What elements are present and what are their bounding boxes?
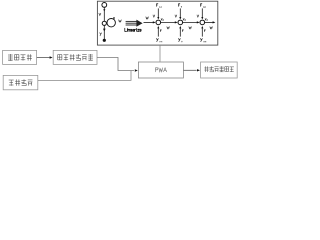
top label F_t+1 [201,4,203,7]
wire F_t-1 into node [157,8,159,18]
label 目标音频信号 [58,55,62,60]
node F (top circle of left chain) [102,3,107,8]
node label x_t-1 [161,18,163,20]
wire figure box to PWA [159,45,161,61]
bottom label y_t-1 [156,38,158,42]
wire y_t-1 into node (from below) [157,27,159,36]
wire node1 to node2 [161,21,177,23]
node label x_t [183,18,185,20]
wire F_t+1 into node [201,8,203,18]
label W (right of loop) [119,20,122,22]
label V at node 2 [175,15,177,17]
label W between node2 node3 [189,26,192,28]
wire node3 out [205,21,215,23]
bottom label y_t [178,38,180,42]
label V at node 3 [197,15,199,17]
bottom label y_t+1 [200,38,202,42]
top label F_t-1 [157,4,159,7]
wire y_t+1 into node (from below) [201,27,203,36]
top label F_t [179,4,181,7]
box 目标跟踪信息 (output box) [201,62,238,78]
wire middle box to PWA [97,58,134,71]
block arrow: linearization [126,21,137,25]
self-loop W on node x [107,19,115,27]
label V (left of wire) [99,13,101,16]
wire PWA to output box [184,69,197,71]
wire box1 to middle box [37,57,50,59]
label 查询信号 [9,80,14,86]
box PWA [138,62,183,78]
node label x_t+1 [205,18,207,20]
wire into node x_t-1 [144,21,155,23]
wire node2 to node3 [183,21,199,23]
label 目标跟踪信息 [204,66,208,72]
wire F_t into node [179,8,181,18]
box 目标音频信号 (middle box) [53,50,97,64]
label F beside lower wire 2 [182,30,183,32]
wire F to node x [103,8,105,22]
output dot [103,39,106,42]
box 查询信号 (bottom-left input box) [3,75,38,89]
label PWA [156,68,167,72]
node x (left chain state) [102,21,106,25]
node x_t+1 [200,20,205,25]
label W after node3 [210,26,213,28]
wire y_t into node (from below) [179,27,181,36]
label 轨迹信号 [8,54,13,61]
node x_t [178,20,183,25]
node x_t-1 [156,20,161,25]
wire box2 to PWA junction [38,71,131,81]
label W (before first node) [146,17,149,19]
label V at node 1 [153,15,155,17]
label F beside lower wire 3 [204,30,205,32]
label W between node1 node2 [167,26,170,28]
wire node x to output dot [103,26,105,40]
box 轨迹信号 (top-left input box) [3,50,37,64]
label F beside lower wire 1 [160,30,161,32]
label y (left of wire) [100,33,102,36]
outer box: linearized model figure [97,1,217,45]
label Linearize [125,28,141,31]
